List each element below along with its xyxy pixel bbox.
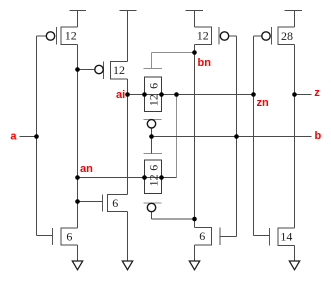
svg-text:ai: ai	[116, 89, 125, 101]
svg-text:6: 6	[199, 229, 205, 243]
svg-text:12: 12	[197, 29, 209, 43]
svg-text:14: 14	[280, 230, 292, 244]
svg-text:6: 6	[66, 229, 72, 243]
svg-text:12: 12	[147, 174, 161, 186]
svg-text:12: 12	[65, 29, 77, 43]
svg-text:6: 6	[147, 165, 161, 171]
svg-text:b: b	[315, 130, 322, 142]
svg-text:12: 12	[147, 94, 161, 106]
svg-text:zn: zn	[257, 97, 270, 109]
svg-text:an: an	[80, 163, 93, 175]
svg-text:6: 6	[112, 196, 118, 210]
svg-text:6: 6	[147, 83, 161, 89]
svg-text:12: 12	[113, 63, 125, 77]
svg-text:28: 28	[281, 29, 293, 43]
svg-text:a: a	[10, 131, 17, 143]
svg-text:bn: bn	[198, 57, 212, 69]
svg-text:z: z	[314, 87, 320, 99]
